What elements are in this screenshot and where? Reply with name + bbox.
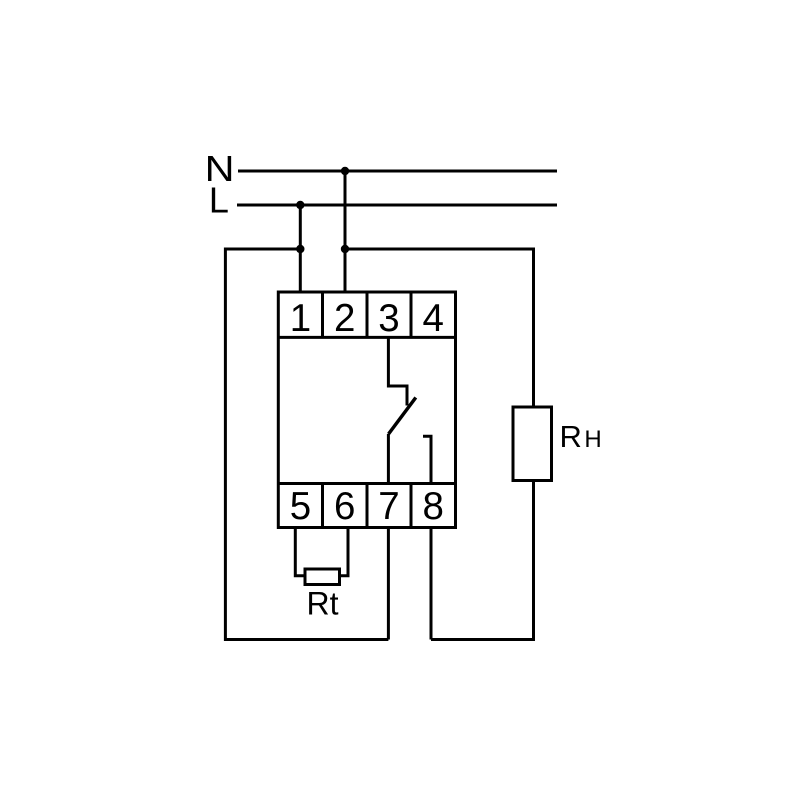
svg-text:L: L <box>209 180 229 221</box>
svg-text:7: 7 <box>378 485 399 528</box>
svg-text:3: 3 <box>378 297 399 340</box>
svg-text:Rt: Rt <box>307 586 339 622</box>
svg-text:2: 2 <box>334 297 355 340</box>
svg-text:6: 6 <box>334 485 355 528</box>
svg-text:4: 4 <box>423 297 444 340</box>
svg-text:8: 8 <box>423 485 444 528</box>
svg-text:1: 1 <box>290 297 311 340</box>
svg-text:5: 5 <box>290 485 311 528</box>
